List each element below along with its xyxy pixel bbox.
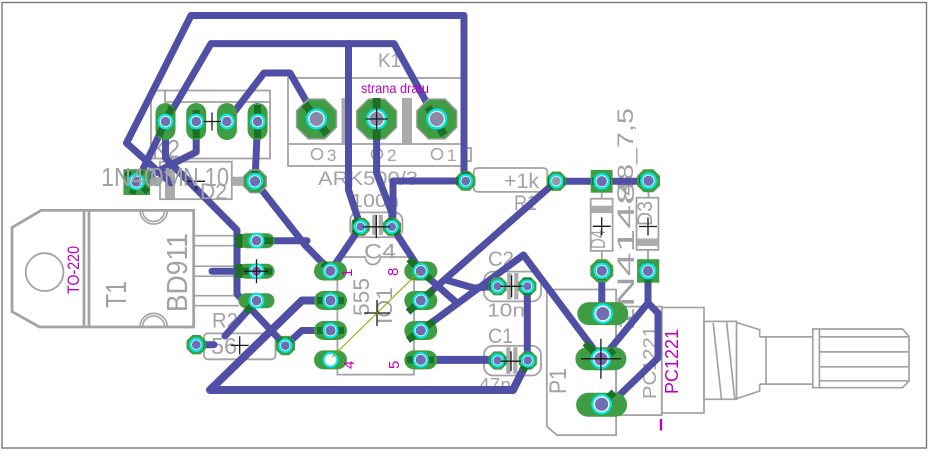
svg-text:1N40: 1N40	[101, 162, 157, 192]
IC IO1 (555)	[337, 257, 414, 375]
resistor R2	[204, 333, 276, 359]
transistor T1 (BD911 TO-220)	[12, 210, 194, 327]
wire: C4 left to IO1-1	[331, 227, 361, 271]
wire: R1 right to D4/D3 tops	[556, 178, 648, 185]
R1 pads	[456, 171, 475, 190]
wire: T1-2 stub	[212, 268, 257, 275]
svg-text:1: 1	[339, 269, 356, 277]
diode D3	[637, 198, 659, 250]
wire: R1 right to IO1-7	[421, 181, 557, 300]
wire: R1 left to C4 right	[392, 181, 466, 224]
svg-text:PC1221: PC1221	[662, 329, 682, 394]
diode D4	[591, 199, 613, 251]
resistor R1	[474, 168, 548, 192]
wire: IO1-5 to C1 left	[421, 356, 498, 364]
svg-text:D4: D4	[587, 230, 610, 249]
wire: T1-3 stub	[225, 301, 257, 336]
IO1 pads	[314, 262, 347, 281]
svg-text:5: 5	[386, 361, 403, 369]
svg-text:555: 555	[349, 278, 374, 316]
K2 pads	[156, 103, 176, 140]
svg-text:10n: 10n	[487, 301, 525, 321]
svg-text:D3: D3	[634, 201, 657, 226]
wire: IO1-6 to P1 middle	[421, 255, 601, 359]
P1 pads	[577, 302, 628, 325]
C1 pads	[489, 351, 507, 369]
IO1 pin numbers	[339, 269, 356, 277]
C4 pads	[352, 218, 370, 236]
wire: K2-A down to R2 right	[166, 122, 286, 346]
svg-text:2: 2	[387, 146, 396, 165]
svg-text:strana dratu: strana dratu	[361, 80, 429, 96]
capacitor C2	[484, 272, 541, 302]
wire: C4 right to IO1-8	[392, 227, 421, 271]
svg-text:P1: P1	[545, 368, 572, 394]
capacitor C4	[350, 212, 402, 237]
connector K2	[151, 91, 270, 159]
wire: K2-C to K1-3	[227, 73, 317, 122]
wire: IO1-8 stub	[421, 271, 457, 303]
svg-text:T1: T1	[101, 281, 133, 308]
wire: to C2 left	[446, 280, 498, 288]
svg-text:C1: C1	[488, 325, 513, 348]
diode D2	[160, 162, 232, 200]
origin crosses	[203, 113, 221, 131]
svg-text:8: 8	[385, 268, 402, 276]
capacitor C1	[484, 346, 541, 376]
svg-text:TO-220: TO-220	[64, 246, 83, 294]
wire: IO1-3 to R2 right	[285, 331, 330, 346]
wire: K2-D to D2 anode	[255, 122, 258, 182]
wire: C2 right to C1 right	[524, 286, 531, 360]
svg-text:BD911: BD911	[162, 233, 194, 312]
wire: T1-1 stub	[257, 237, 308, 244]
R2 pads	[187, 335, 206, 354]
wire: K2-A / K1-1 net	[137, 44, 437, 182]
wire: GND top outline net	[127, 16, 465, 184]
wire: branch to C4 left	[349, 44, 361, 227]
wire: D2 anode to IO1-1	[255, 181, 331, 271]
connector K1 (ARK500/3)	[288, 78, 471, 166]
wire: D4 bottom to P1 top	[598, 271, 605, 314]
D3 pads	[637, 169, 660, 192]
svg-text:+1k: +1k	[504, 170, 539, 193]
svg-text:3: 3	[327, 146, 336, 165]
wire: K1-2 down to C4 right	[377, 119, 392, 227]
svg-text:0M: 0M	[150, 162, 184, 192]
K1 pads	[297, 99, 337, 139]
airwire IO1-4 to IO1-8	[332, 272, 419, 357]
C2 pads	[489, 277, 507, 295]
wire: IO1-2 to bottom rail to C1 right	[210, 301, 528, 391]
wire: R2 left stub	[196, 341, 214, 348]
D4 pads	[591, 170, 613, 193]
D2 pads	[123, 169, 150, 195]
svg-text:4: 4	[341, 361, 358, 369]
wire: D3 bottom to P1 middle	[602, 271, 648, 359]
wire: D3 branch to P1 bottom	[605, 303, 658, 409]
potentiometer shaft outline	[662, 308, 909, 414]
potentiometer P1 (PC1221)	[547, 290, 662, 436]
svg-text:D2: D2	[200, 179, 227, 204]
wire: K2-B to D2 cathode	[137, 122, 196, 183]
T1 pads	[239, 233, 275, 248]
svg-text:C4: C4	[364, 241, 396, 264]
svg-text:1: 1	[447, 146, 456, 165]
